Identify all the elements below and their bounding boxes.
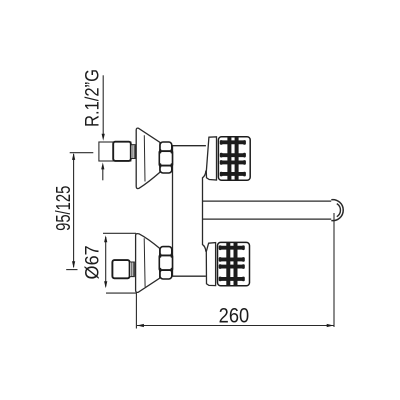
svg-text:260: 260	[219, 304, 249, 328]
svg-text:R.1/2”G: R.1/2”G	[81, 69, 103, 127]
svg-text:Ø67: Ø67	[81, 245, 103, 279]
svg-text:95/125: 95/125	[52, 185, 75, 230]
